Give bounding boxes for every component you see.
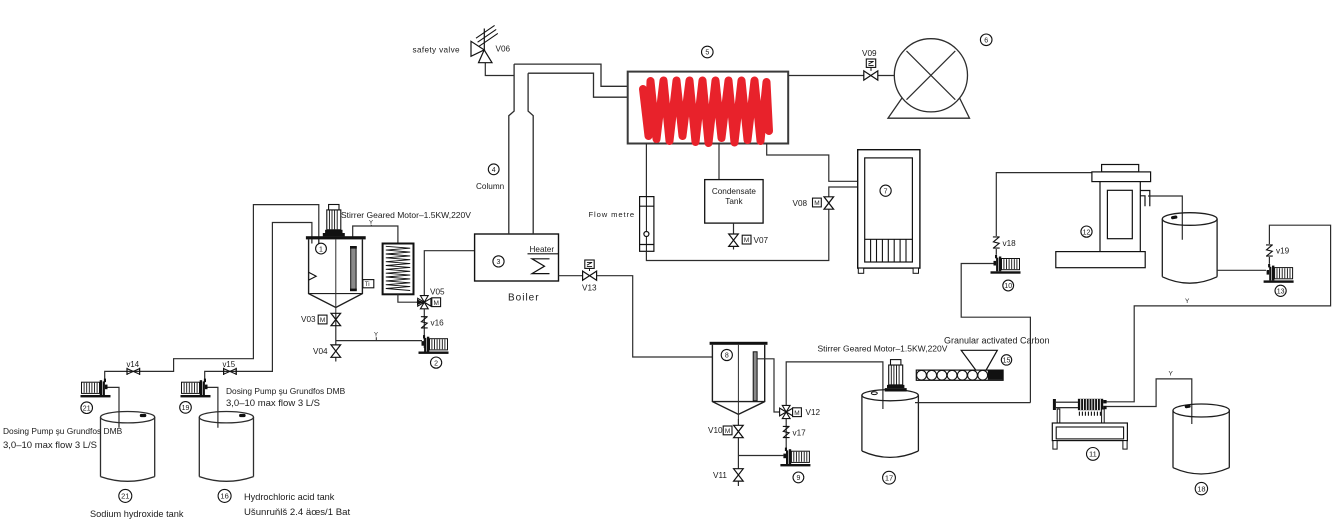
svg-text:Stirrer Geared Motor–1.5KW,220: Stirrer Geared Motor–1.5KW,220V: [818, 344, 948, 354]
svg-text:V13: V13: [582, 284, 597, 293]
V03 actuator M: [318, 315, 327, 324]
svg-text:Heater: Heater: [530, 245, 555, 254]
node 6 circle: [980, 34, 992, 46]
node 17 circle: [883, 471, 896, 484]
tank8 level gauge: [753, 352, 757, 401]
svg-text:Granular activated Carbon: Granular activated Carbon: [944, 336, 1050, 346]
valve v18: [993, 237, 1000, 248]
svg-text:5: 5: [705, 50, 709, 57]
valve V07: [729, 234, 739, 246]
wire V12 up to tank17 stirrer line: [786, 362, 883, 409]
wire V13 to tank8: [597, 276, 713, 357]
wire flow metre to V08 riser: [646, 187, 857, 261]
svg-text:Ti: Ti: [365, 282, 370, 288]
condensate tank: [705, 180, 763, 224]
valve V08: [824, 197, 834, 209]
V10 actuator M: [723, 426, 732, 435]
machine 12 window: [1107, 190, 1132, 238]
valve v19: [1266, 245, 1273, 256]
svg-text:V09: V09: [862, 49, 877, 58]
svg-text:safety valve: safety valve: [413, 45, 461, 54]
wire tank17 to pump10 loop: [915, 264, 1030, 403]
svg-text:V06: V06: [496, 44, 511, 53]
wire pump21 discharge to v14 riser: [105, 205, 319, 383]
tank 1 body: [309, 239, 363, 307]
press table: [1052, 423, 1127, 441]
press plate stack: [1078, 399, 1103, 410]
valve V03: [331, 313, 341, 325]
wire V05 riser to boiler: [424, 251, 474, 296]
node 3 circle: [493, 256, 504, 267]
cabinet 7 feet: [858, 268, 863, 273]
wire tank1 drain V03/V04: [335, 314, 337, 362]
wire condenser to cabinet7 upper: [767, 144, 858, 182]
fan 6: [894, 39, 967, 112]
svg-text:Hydrochloric acid tank: Hydrochloric acid tank: [244, 492, 335, 502]
wire pump10 to v18 to comp12: [996, 173, 1092, 255]
tank 16 hydrochloric acid: [199, 412, 253, 482]
node 12 circle: [1081, 226, 1092, 237]
svg-text:3: 3: [497, 259, 501, 266]
tank 8 lid: [710, 342, 768, 345]
wire drain to pump9 suction: [738, 455, 784, 457]
node 5 circle: [702, 46, 714, 58]
node 9 circle: [793, 472, 804, 483]
wire tank8 gauge to V12: [757, 359, 780, 412]
svg-text:7: 7: [884, 188, 888, 195]
vapour pipe inner: [528, 73, 628, 97]
wire pump2 suction to tank1 drain: [336, 340, 422, 342]
wire tank to pump13: [1217, 269, 1266, 271]
svg-text:v18: v18: [1003, 239, 1017, 248]
safety valve V06: [471, 25, 498, 62]
valve v14: [127, 368, 140, 375]
cabinet 7 grille: [865, 239, 913, 262]
V07 actuator M: [742, 235, 751, 244]
tank8 center line: [737, 345, 739, 419]
svg-text:Boiler: Boiler: [508, 293, 540, 304]
svg-text:Dosing Pump şu Grundfos DMB: Dosing Pump şu Grundfos DMB: [226, 386, 346, 396]
svg-text:V07: V07: [754, 236, 769, 245]
machine 12 spout: [1140, 191, 1150, 207]
svg-text:Ušunruňlš 2.4 äœs/1 Bat: Ušunruňlš 2.4 äœs/1 Bat: [244, 507, 350, 518]
node 18 circle: [1195, 482, 1207, 494]
wire condensate tank to V07: [733, 223, 735, 249]
svg-text:8: 8: [725, 353, 729, 360]
valve v17: [783, 426, 790, 437]
valve V04: [331, 345, 341, 357]
V12 actuator M: [793, 408, 802, 417]
node 21 tank circle: [119, 489, 132, 502]
node 10 circle: [1003, 280, 1014, 291]
wire tank8 drain V10 V11: [737, 419, 739, 486]
node 16 tank circle: [218, 489, 231, 502]
wire boiler outlet to V13: [559, 275, 583, 277]
flow metre: [640, 197, 654, 252]
svg-text:Flow metre: Flow metre: [589, 210, 636, 219]
valve V12: [780, 405, 793, 418]
vapour pipe outer: [514, 64, 628, 86]
svg-text:V11: V11: [713, 471, 727, 480]
pump 9: [780, 448, 810, 467]
tank beside 12: [1162, 213, 1217, 284]
wire condenser to V09/fan: [788, 75, 894, 77]
column walls: [509, 64, 533, 234]
tank1 center line: [335, 239, 337, 314]
tank 17 body: [862, 390, 919, 458]
valve V13: [583, 271, 597, 280]
svg-text:Condensate: Condensate: [712, 187, 757, 196]
stirrer motor tank17: [885, 360, 907, 392]
svg-text:v16: v16: [431, 319, 445, 328]
wire V12 down to v17 to pump9: [785, 419, 787, 449]
svg-text:3,0–10 max flow 3 L/S: 3,0–10 max flow 3 L/S: [226, 398, 320, 409]
svg-text:9: 9: [796, 475, 800, 482]
V05 actuator M: [432, 298, 441, 307]
node 7 circle: [880, 185, 891, 196]
svg-text:Sodium hydroxide tank: Sodium hydroxide tank: [90, 509, 184, 519]
wire condenser to condensate tank: [718, 144, 720, 180]
svg-text:V12: V12: [806, 408, 821, 417]
node 2 circle: [431, 357, 442, 368]
wire pump19 discharge to v15 riser: [205, 223, 312, 383]
wire safety valve branch: [485, 63, 514, 76]
heater sigma element: [532, 259, 550, 274]
machine 12 top plate: [1092, 172, 1151, 182]
tank 1 lid: [306, 236, 366, 239]
cabinet 7 inner: [865, 158, 913, 262]
wire coil bottom to V05: [398, 294, 417, 302]
wire spout to tank14: [1148, 196, 1182, 240]
condenser box: [628, 72, 789, 144]
machine 12 top lid: [1102, 165, 1139, 172]
stirrer motor tank1: [323, 205, 345, 237]
svg-text:V05: V05: [430, 288, 445, 297]
tank 8 body: [712, 345, 764, 415]
svg-text:V10: V10: [708, 426, 723, 435]
svg-text:10: 10: [1004, 283, 1012, 290]
svg-text:V04: V04: [313, 347, 328, 356]
pump 10: [991, 255, 1021, 274]
svg-text:21: 21: [121, 492, 129, 501]
valve V09: [864, 71, 878, 80]
node 11 circle: [1087, 448, 1100, 461]
wire pump21 suction to tank21: [107, 387, 119, 427]
valve V05: [418, 296, 431, 309]
tank17 vent hole: [871, 392, 877, 395]
machine 12 column: [1100, 182, 1140, 252]
svg-text:11: 11: [1089, 450, 1097, 459]
press legs: [1057, 409, 1060, 423]
svg-text:v15: v15: [223, 360, 236, 369]
wire tank1 lid to coil heat exchanger: [353, 226, 398, 244]
V09 actuator box: [866, 59, 875, 67]
svg-text:Dosing Pump şu Grundfos DMB: Dosing Pump şu Grundfos DMB: [3, 426, 123, 436]
valve v16: [421, 317, 428, 328]
press left cap: [1053, 399, 1056, 410]
svg-text:V03: V03: [301, 315, 316, 324]
screw conveyor: [916, 370, 1003, 380]
node 19 pump circle: [180, 402, 192, 414]
svg-text:15: 15: [1003, 358, 1011, 365]
pump 2: [419, 335, 449, 354]
boiler box: [475, 234, 559, 281]
svg-text:16: 16: [220, 492, 228, 501]
fan 6 stand: [888, 97, 970, 118]
svg-text:Stirrer Geared Motor–1.5KW,220: Stirrer Geared Motor–1.5KW,220V: [341, 210, 471, 220]
node 21 pump circle: [81, 402, 93, 414]
coil zigzag: [386, 246, 410, 290]
svg-text:3,0–10 max flow 3 L/S: 3,0–10 max flow 3 L/S: [3, 440, 97, 451]
svg-text:Y: Y: [1169, 371, 1174, 378]
svg-text:19: 19: [182, 405, 190, 412]
press rails: [1056, 402, 1078, 408]
svg-text:6: 6: [984, 38, 988, 45]
svg-text:17: 17: [885, 474, 893, 483]
node 1 circle: [316, 243, 327, 254]
valve V10: [734, 425, 744, 437]
carbon hopper 15: [961, 350, 997, 370]
pump 13: [1264, 264, 1294, 283]
svg-text:v19: v19: [1276, 247, 1290, 256]
valve v15: [224, 368, 237, 375]
tank inlet tick: [1171, 215, 1178, 219]
svg-text:13: 13: [1277, 289, 1285, 296]
V08 actuator M: [813, 198, 822, 207]
press under hatch: [1079, 412, 1100, 416]
svg-text:v14: v14: [127, 360, 140, 369]
wire press outlet to tank18: [1107, 379, 1192, 424]
node 15 circle: [1001, 355, 1011, 365]
V13 actuator box: [585, 260, 594, 268]
svg-text:2: 2: [434, 360, 438, 367]
svg-text:12: 12: [1083, 229, 1091, 236]
tank1 inlet dip lines: [312, 239, 319, 243]
tank18 inlet tick: [1185, 404, 1191, 408]
node 8 circle: [721, 349, 732, 360]
pump 19: [181, 379, 211, 398]
svg-text:Column: Column: [476, 182, 505, 191]
svg-text:18: 18: [1197, 484, 1205, 493]
machine 12 base: [1056, 252, 1145, 268]
tank1 level gauge: [351, 248, 356, 290]
svg-text:21: 21: [83, 405, 91, 412]
wire V05 to v16 to pump2: [423, 309, 425, 348]
svg-text:Y: Y: [1185, 298, 1190, 305]
wire pump19 suction to tank16: [207, 387, 218, 427]
Ti sensor box: [363, 280, 374, 288]
condenser coil red: [643, 81, 769, 144]
svg-text:v17: v17: [793, 428, 807, 437]
node 13 circle: [1275, 285, 1286, 296]
coil heat exchanger box: [383, 244, 414, 295]
svg-text:4: 4: [492, 167, 496, 174]
tank1 spray nozzle: [309, 272, 317, 280]
pump 21: [81, 379, 111, 398]
node 4 circle: [488, 164, 499, 175]
svg-text:Tank: Tank: [725, 197, 743, 206]
tank 18: [1173, 404, 1229, 474]
svg-text:1: 1: [319, 246, 323, 253]
wire pump13 to v19 loop to press: [1107, 225, 1331, 402]
wire condenser to flow metre: [645, 144, 647, 197]
tank 21 sodium hydroxide: [101, 412, 155, 482]
svg-text:V08: V08: [793, 199, 808, 208]
cabinet 7 outer: [858, 150, 920, 268]
valve V11: [734, 469, 744, 481]
